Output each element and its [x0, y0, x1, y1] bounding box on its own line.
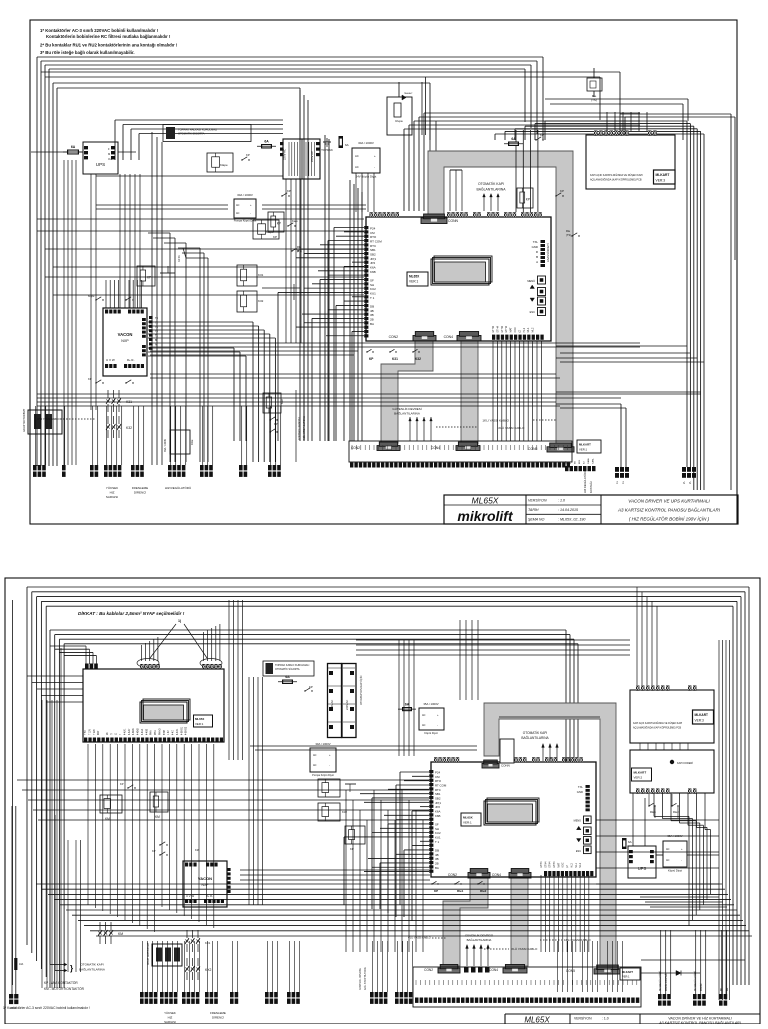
svg-text:mikrolift: mikrolift	[457, 508, 514, 524]
svg-text:FRENLEME: FRENLEME	[132, 486, 148, 490]
svg-text:PHA: PHA	[154, 730, 157, 735]
svg-text:AC: AC	[422, 714, 426, 717]
svg-text:YÜKSEK: YÜKSEK	[106, 486, 118, 490]
svg-text:4KP: 4KP	[98, 730, 100, 735]
svg-text:30A / 1000V: 30A / 1000V	[237, 193, 253, 197]
svg-text:6A: 6A	[71, 145, 76, 149]
svg-text:ETH4: ETH4	[553, 861, 556, 868]
svg-text:4-KA1: 4-KA1	[123, 728, 126, 735]
svg-text:VER:3: VER:3	[695, 719, 704, 723]
svg-text:KP: KP	[273, 235, 277, 239]
svg-text:KM - MOTOR KONTAKTÖR: KM - MOTOR KONTAKTÖR	[44, 987, 85, 991]
svg-text:ML65X: ML65X	[524, 1016, 550, 1025]
svg-text:NXP: NXP	[121, 339, 129, 343]
svg-text:KM: KM	[195, 848, 199, 852]
svg-text:3D: 3D	[566, 461, 568, 464]
svg-text:CON4: CON4	[489, 968, 498, 972]
svg-text:T 5V: T 5V	[85, 730, 87, 735]
svg-text:AC: AC	[355, 165, 359, 169]
svg-text:ML65X: ML65X	[472, 496, 499, 506]
svg-text:SARGISI: SARGISI	[164, 1020, 176, 1024]
svg-text:AC: AC	[236, 212, 240, 215]
svg-text:HL2: HL2	[570, 863, 573, 868]
svg-text:ML2: ML2	[532, 327, 535, 332]
svg-text:HIZ REGÜLATÖRÜ: HIZ REGÜLATÖRÜ	[165, 486, 191, 490]
svg-text:Klape: Klape	[88, 295, 95, 298]
svg-text:ACİL STOP BUTONU: ACİL STOP BUTONU	[364, 967, 367, 990]
svg-text:DİRENCİ: DİRENCİ	[134, 490, 147, 495]
svg-text:K3 S3: K3 S3	[178, 255, 181, 262]
svg-text:VER:1: VER:1	[195, 722, 204, 726]
svg-text:A3 KARTSIZ KONTROL PANOSU BAĞL: A3 KARTSIZ KONTROL PANOSU BAĞLANTILARI	[658, 1020, 740, 1024]
svg-text:AC: AC	[666, 848, 670, 851]
svg-text:HL2: HL2	[523, 327, 526, 332]
svg-text:U V W: U V W	[106, 358, 115, 362]
svg-text:B: B	[536, 255, 538, 259]
svg-text:ML2: ML2	[579, 862, 582, 867]
svg-text:T 1: T 1	[435, 840, 440, 844]
svg-text:K6B: K6B	[370, 270, 376, 274]
svg-text:MLKART: MLKART	[579, 443, 591, 447]
svg-text:DİRENCİ: DİRENCİ	[212, 1015, 224, 1020]
svg-text:4-KM1: 4-KM1	[133, 728, 135, 735]
svg-text:KP: KP	[540, 133, 544, 137]
svg-text:CONN: CONN	[448, 219, 459, 223]
svg-text:220V AC: 220V AC	[310, 151, 314, 162]
svg-text:GND: GND	[532, 245, 538, 249]
svg-text:Kapı: Kapı	[292, 219, 298, 223]
svg-text:KP: KP	[277, 221, 281, 225]
svg-text:R: R	[536, 250, 538, 254]
svg-text:3* Bu röle isteğe bağlı olarak: 3* Bu röle isteğe bağlı olarak kullanılm…	[40, 50, 135, 55]
svg-text:R+ R-: R+ R-	[127, 358, 134, 362]
svg-text:: ML65X_02_190: : ML65X_02_190	[558, 518, 585, 522]
svg-text:MLKART: MLKART	[695, 713, 709, 717]
svg-text:6A: 6A	[345, 143, 349, 147]
svg-text:GÜVENLİK DEVRESİ: GÜVENLİK DEVRESİ	[392, 406, 421, 411]
svg-text:ETH4: ETH4	[544, 861, 547, 868]
svg-text:K31: K31	[392, 357, 398, 361]
svg-text:24V Büyük Diyot: 24V Büyük Diyot	[356, 175, 377, 179]
svg-text:ML1: ML1	[575, 862, 578, 867]
svg-text:AÇILAMADIĞINDA (KAPI KÖPRÜLEME: AÇILAMADIĞINDA (KAPI KÖPRÜLEME) PCB	[633, 727, 681, 730]
svg-text:: 1.0: : 1.0	[558, 499, 565, 503]
svg-text:KONTROL PANOSU: KONTROL PANOSU	[359, 968, 362, 990]
svg-text:6A: 6A	[285, 675, 290, 679]
svg-text:CON5: CON5	[566, 969, 575, 973]
svg-text:HIZ REGÜLATÖRÜ: HIZ REGÜLATÖRÜ	[583, 470, 587, 493]
svg-text:K6B: K6B	[435, 814, 441, 818]
svg-text:GRUP MOTORBMT: GRUP MOTORBMT	[22, 408, 26, 432]
svg-text:CANL: CANL	[592, 457, 595, 464]
svg-text:PHAO: PHAO	[158, 728, 161, 735]
svg-text:TOPRAK HALKASI KURULMALI: TOPRAK HALKASI KURULMALI	[178, 128, 217, 132]
svg-text:35A / 1000V: 35A / 1000V	[164, 439, 167, 452]
svg-text:CON2: CON2	[389, 335, 399, 339]
svg-text:ETH4: ETH4	[540, 861, 543, 868]
svg-text:KM: KM	[155, 815, 160, 819]
svg-text:VER:3: VER:3	[656, 179, 666, 183]
svg-text:ETH4: ETH4	[501, 326, 504, 333]
svg-text:16'LI YASSI KABLO: 16'LI YASSI KABLO	[564, 938, 591, 942]
svg-text:220V AC: 220V AC	[345, 700, 349, 710]
svg-text:MAT: MAT	[510, 327, 513, 333]
svg-text:VACON DRİVER VE HİZ KURTARMALI: VACON DRİVER VE HİZ KURTARMALI	[668, 1017, 732, 1021]
svg-text:30A / 1000V: 30A / 1000V	[358, 141, 374, 145]
svg-text:KM: KM	[118, 932, 123, 936]
svg-text:KDC: KDC	[562, 862, 565, 867]
svg-text:BAĞLANTILARINA: BAĞLANTILARINA	[476, 187, 506, 192]
svg-text:FRENLEME: FRENLEME	[210, 1011, 226, 1015]
svg-text:4-KM2: 4-KM2	[138, 728, 140, 735]
svg-text:ESC: ESC	[576, 850, 581, 853]
svg-text:UPS: UPS	[96, 162, 105, 167]
svg-text:VACON DRIVER VE UPS KURTARMALI: VACON DRIVER VE UPS KURTARMALI	[628, 499, 710, 504]
svg-text:4'LÜ YASSI KABLO: 4'LÜ YASSI KABLO	[408, 936, 431, 940]
svg-text:-: -	[250, 212, 251, 215]
svg-text:AÇILAMADIĞINDA (KAPI KÖPRÜLEME: AÇILAMADIĞINDA (KAPI KÖPRÜLEME) PCB	[590, 179, 642, 182]
svg-text:VER:1: VER:1	[463, 821, 472, 825]
svg-text:KP: KP	[152, 849, 156, 853]
svg-text:AC: AC	[236, 204, 240, 207]
svg-text:Tf: Tf	[111, 733, 113, 735]
svg-text:T 1: T 1	[370, 296, 375, 300]
svg-text:K32: K32	[280, 399, 284, 404]
svg-text:KDC: KDC	[514, 327, 517, 332]
svg-text:4-EKO1: 4-EKO1	[181, 726, 183, 735]
svg-text:VER:1: VER:1	[622, 975, 630, 979]
svg-text:220V AC: 220V AC	[283, 149, 287, 160]
svg-text:KP: KP	[526, 197, 530, 201]
svg-text:Klape: Klape	[220, 163, 228, 167]
svg-text:HIZ: HIZ	[168, 1016, 173, 1020]
svg-text:MLKART: MLKART	[634, 771, 647, 775]
svg-text:K32: K32	[258, 299, 264, 303]
svg-text:K32: K32	[126, 426, 132, 430]
svg-text:: 1.0: : 1.0	[602, 1017, 609, 1021]
svg-text:ML1: ML1	[527, 327, 530, 332]
svg-text:A: A	[536, 260, 538, 264]
svg-text:KP: KP	[274, 422, 278, 426]
svg-text:AC: AC	[422, 724, 426, 727]
svg-text:KONTROL PANOSU: KONTROL PANOSU	[298, 417, 301, 440]
svg-text:CONN: CONN	[501, 764, 510, 768]
svg-text:CON5: CON5	[528, 447, 538, 451]
svg-text:-: -	[374, 165, 375, 169]
svg-text:UPS: UPS	[638, 866, 647, 871]
svg-text:-: -	[437, 724, 438, 727]
svg-text:ACİL STOP BUTONU: ACİL STOP BUTONU	[303, 416, 306, 440]
svg-text:}: }	[70, 964, 73, 973]
svg-text:ETH4: ETH4	[496, 326, 499, 333]
svg-text:VER:1: VER:1	[579, 448, 588, 452]
svg-text:MENÜ: MENÜ	[574, 820, 582, 823]
svg-text:OTOMATİK SİGORTA: OTOMATİK SİGORTA	[275, 668, 300, 671]
svg-text:SARGISI: SARGISI	[106, 495, 118, 499]
svg-text:-: -	[681, 859, 682, 862]
svg-text:( HIZ REGÜLATÖR BOBİNİ 190V İÇ: ( HIZ REGÜLATÖR BOBİNİ 190V İÇİN )	[629, 516, 710, 522]
svg-text:Köprü Diyot: Köprü Diyot	[424, 731, 438, 735]
svg-text:B 6B: B 6B	[164, 730, 166, 735]
svg-text:ESC: ESC	[530, 310, 535, 314]
svg-text:T 12V: T 12V	[89, 728, 91, 735]
svg-text:YÜKSEK: YÜKSEK	[164, 1011, 176, 1015]
svg-text:ML65X: ML65X	[195, 717, 204, 721]
svg-text:BAĞLANTILARINA: BAĞLANTILARINA	[521, 735, 549, 740]
svg-text:TOPRAK KABLO KURULMALI: TOPRAK KABLO KURULMALI	[275, 664, 310, 667]
svg-text:ETH4: ETH4	[492, 326, 495, 333]
svg-text:BA: BA	[435, 866, 439, 870]
svg-text:30A / 1000V: 30A / 1000V	[315, 742, 330, 746]
svg-text:VER:1: VER:1	[409, 280, 418, 284]
svg-text:CANH: CANH	[587, 457, 590, 464]
svg-text:VERSİYON: VERSİYON	[528, 499, 547, 503]
svg-text:TOPRAK: TOPRAK	[321, 148, 333, 152]
svg-text:TXL: TXL	[578, 785, 584, 789]
svg-text:4-4Z: 4-4Z	[173, 730, 175, 735]
svg-text:4-KA7: 4-KA7	[128, 728, 131, 735]
svg-text:TXL: TXL	[533, 240, 539, 244]
svg-text:ETH4: ETH4	[505, 326, 508, 333]
svg-text:16'LI YASSI KABLO: 16'LI YASSI KABLO	[482, 419, 509, 423]
svg-text:(TS): (TS)	[591, 98, 597, 102]
svg-text:1* Kontaktörler AC-3 sınıfı 22: 1* Kontaktörler AC-3 sınıfı 220VAC bobin…	[40, 28, 159, 33]
svg-text:MAT: MAT	[557, 862, 560, 867]
svg-text:-: -	[329, 764, 330, 767]
svg-text:10A: 10A	[19, 963, 24, 966]
svg-text:BAĞLANTILARINA: BAĞLANTILARINA	[79, 967, 105, 972]
svg-text:GND: GND	[577, 790, 583, 794]
svg-text:KP: KP	[560, 189, 564, 193]
svg-text:ML65X: ML65X	[463, 816, 473, 820]
svg-text:OTOMATİK KAPI: OTOMATİK KAPI	[80, 962, 103, 967]
svg-text:Köprü Diyot: Köprü Diyot	[668, 869, 682, 873]
svg-text:KAPI AÇIK KAPATILDIĞINDA VE DÜ: KAPI AÇIK KAPATILDIĞINDA VE DÜŞEN KAPI	[633, 722, 683, 725]
svg-text:6A: 6A	[511, 137, 516, 141]
svg-text:4-EKO2: 4-EKO2	[186, 726, 188, 735]
svg-text:35A / 1000V: 35A / 1000V	[423, 702, 438, 706]
svg-text:Rle: Rle	[566, 229, 571, 233]
svg-text:KP: KP	[246, 153, 250, 157]
svg-text:JK: JK	[107, 732, 109, 735]
svg-text:6A: 6A	[628, 840, 632, 844]
svg-text:K31: K31	[258, 273, 264, 277]
svg-text:Rupa: Rupa	[395, 119, 403, 123]
svg-text:BAĞLANTILARINA: BAĞLANTILARINA	[394, 411, 420, 416]
svg-text:OTOMATİK KAPI: OTOMATİK KAPI	[478, 181, 504, 186]
svg-text:+: +	[374, 154, 376, 158]
svg-text:VACON: VACON	[118, 332, 133, 337]
svg-text:PHA: PHA	[150, 730, 153, 735]
svg-text:ED: ED	[575, 461, 577, 464]
svg-text:BAĞLANTILARINA: BAĞLANTILARINA	[467, 937, 492, 942]
svg-text:VACON: VACON	[198, 876, 212, 881]
svg-text:Out: Out	[108, 157, 112, 161]
svg-text:4-KZ1: 4-KZ1	[177, 728, 179, 735]
svg-text:BA: BA	[370, 322, 374, 326]
svg-text:4'LÜ YASSI KABLO: 4'LÜ YASSI KABLO	[511, 947, 538, 951]
svg-text:KP: KP	[120, 782, 124, 786]
svg-text:6A: 6A	[264, 140, 269, 144]
svg-text:4'LÜ YASSI KABLO: 4'LÜ YASSI KABLO	[498, 426, 525, 430]
svg-text:A3 KARTSIZ KONTROL PANOSU BAĞL: A3 KARTSIZ KONTROL PANOSU BAĞLANTILARI	[617, 507, 721, 513]
svg-text:: 14.04.2015: : 14.04.2015	[558, 508, 578, 512]
svg-text:1 4Z: 1 4Z	[168, 730, 170, 735]
svg-text:ŞEMA NO: ŞEMA NO	[528, 518, 545, 522]
svg-text:OTOMATİK KAPI: OTOMATİK KAPI	[523, 730, 548, 735]
svg-text:Pompa Köprü Diyot: Pompa Köprü Diyot	[312, 774, 334, 777]
svg-text:2* Bu kontaklar RU1 ve RU2 kon: 2* Bu kontaklar RU1 ve RU2 kontaktörleri…	[40, 42, 178, 47]
svg-text:1* Kontaktörler AC-3 sınıfı 22: 1* Kontaktörler AC-3 sınıfı 220VAC bobin…	[3, 1006, 90, 1010]
svg-text:VERSİYON: VERSİYON	[574, 1016, 592, 1021]
svg-text:MLKART: MLKART	[656, 173, 670, 177]
svg-text:4-40B: 4-40B	[146, 728, 148, 735]
svg-text:MENÜ: MENÜ	[527, 279, 535, 283]
svg-text:KP: KP	[287, 189, 291, 193]
svg-text:KP: KP	[309, 685, 313, 689]
svg-text:Röle: Röle	[190, 439, 194, 445]
svg-text:TASHHT: TASHHT	[404, 92, 413, 95]
svg-text:KAPI KODERİ: KAPI KODERİ	[677, 762, 693, 765]
svg-text:Kontaktörlerin bobinlerine RC: Kontaktörlerin bobinlerine RC filtresi m…	[46, 34, 171, 39]
svg-text:AC: AC	[666, 859, 670, 862]
svg-text:K32: K32	[415, 357, 421, 361]
svg-text:ETH4: ETH4	[549, 861, 552, 868]
svg-text:GÜVENLİK DEVRESİ: GÜVENLİK DEVRESİ	[465, 933, 493, 938]
svg-text:CON2: CON2	[424, 968, 433, 972]
svg-text:220V AC: 220V AC	[330, 700, 334, 710]
svg-text:MLKART: MLKART	[622, 970, 633, 974]
svg-text:HIZ: HIZ	[110, 491, 115, 495]
svg-text:KAPI AÇIK KAPATILDIĞINDA VE DÜ: KAPI AÇIK KAPATILDIĞINDA VE DÜŞEN KAPI	[590, 174, 643, 177]
svg-text:AC: AC	[355, 154, 359, 158]
svg-text:CON4: CON4	[444, 335, 454, 339]
svg-text:(TS): (TS)	[566, 233, 571, 237]
svg-text:4-40A: 4-40A	[141, 728, 144, 735]
svg-text:K32: K32	[342, 810, 347, 814]
svg-text:ML65X: ML65X	[409, 275, 420, 279]
svg-text:KX2: KX2	[205, 968, 212, 972]
svg-text:VER:2: VER:2	[634, 776, 643, 780]
svg-text:TARİH: TARİH	[528, 508, 539, 512]
svg-text:AC: AC	[313, 754, 317, 757]
svg-text:T 220: T 220	[94, 728, 96, 735]
svg-text:M: M	[108, 152, 110, 156]
svg-text:DİKKAT : Bu kablolar 2,5mm² NY: DİKKAT : Bu kablolar 2,5mm² NYAF seçilme…	[78, 610, 185, 616]
svg-text:AC: AC	[313, 764, 317, 767]
